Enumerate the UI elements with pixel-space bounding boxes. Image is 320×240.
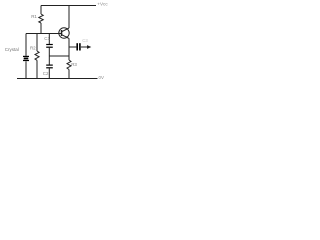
wire emitter down [68,38,70,60]
svg-text:R3: R3 [71,62,77,67]
wire base node [26,33,61,35]
svg-text:R2: R2 [30,46,36,51]
crystal X1 [23,34,29,79]
transistor Q1 [59,28,69,39]
wire top Vcc rail [41,5,96,7]
svg-text:C2: C2 [43,71,49,76]
wire C1 to C2 [48,48,50,65]
capacitor C1 [46,34,53,48]
label R1 [31,14,37,19]
svg-text:C1: C1 [44,36,50,41]
label R2 [30,46,36,51]
label C2 [43,71,49,76]
wire collector to rail [68,6,70,29]
label R3 [71,62,77,67]
capacitor C3 [76,43,80,50]
svg-text:0V: 0V [99,75,104,80]
capacitor C2 [46,65,53,79]
resistor R1 [39,6,43,34]
label 0V [99,75,104,80]
wire emitter feedback tap [49,55,69,57]
resistor R3 [67,60,71,79]
svg-text:C3: C3 [82,38,88,43]
label +Vcc [97,1,108,6]
wire output tap [69,46,76,48]
wire output arrow [81,45,91,49]
label C1 [44,36,50,41]
label C3 [82,38,88,43]
svg-text:R1: R1 [31,14,37,19]
label Crystal [5,47,19,52]
resistor R2 [35,34,39,79]
wire bottom 0V rail [17,78,98,80]
svg-text:+Vcc: +Vcc [97,1,108,6]
svg-text:Crystal: Crystal [5,47,19,52]
